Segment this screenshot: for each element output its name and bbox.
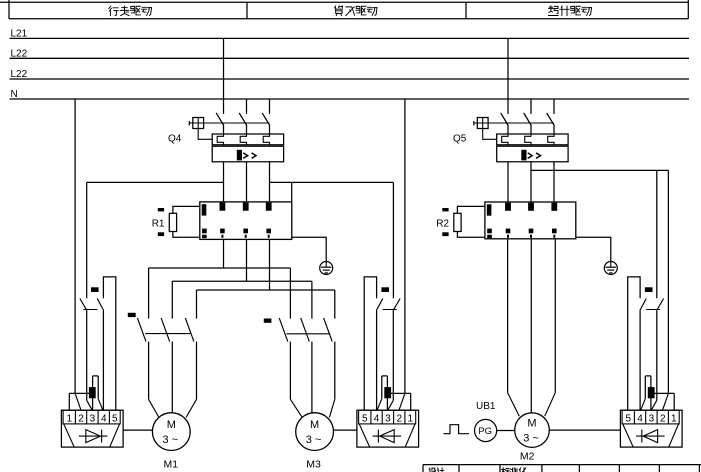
- svg-text:3 ~: 3 ~: [162, 434, 178, 446]
- svg-text:2: 2: [78, 413, 84, 424]
- svg-text:M1: M1: [164, 458, 179, 470]
- svg-text:Q5: Q5: [453, 134, 467, 145]
- svg-text:3 ~: 3 ~: [523, 432, 539, 444]
- svg-text:3: 3: [90, 413, 96, 424]
- svg-text:5: 5: [625, 413, 631, 424]
- svg-text:L22: L22: [11, 48, 28, 59]
- svg-text:4: 4: [101, 413, 107, 424]
- svg-text:3: 3: [385, 413, 391, 424]
- svg-text:L22: L22: [11, 69, 28, 80]
- svg-text:1: 1: [66, 413, 72, 424]
- svg-text:M2: M2: [520, 451, 535, 463]
- svg-text:5: 5: [362, 413, 368, 424]
- svg-text:M: M: [310, 419, 319, 431]
- svg-text:4: 4: [637, 413, 643, 424]
- svg-text:M: M: [167, 419, 176, 431]
- svg-text:M3: M3: [306, 458, 321, 470]
- svg-text:1: 1: [408, 413, 414, 424]
- svg-text:N: N: [11, 89, 18, 100]
- svg-text:2: 2: [660, 413, 666, 424]
- svg-text:R1: R1: [152, 219, 165, 230]
- svg-text:1: 1: [671, 413, 677, 424]
- svg-text:M: M: [527, 418, 536, 430]
- svg-text:R2: R2: [436, 219, 449, 230]
- svg-text:UB1: UB1: [476, 401, 496, 412]
- svg-text:PG: PG: [478, 426, 492, 437]
- svg-text:Q4: Q4: [168, 134, 182, 145]
- svg-text:L21: L21: [11, 28, 28, 39]
- svg-text:4: 4: [374, 413, 380, 424]
- svg-text:3: 3: [649, 413, 655, 424]
- svg-text:3 ~: 3 ~: [306, 434, 322, 446]
- svg-text:2: 2: [396, 413, 402, 424]
- svg-text:5: 5: [112, 413, 118, 424]
